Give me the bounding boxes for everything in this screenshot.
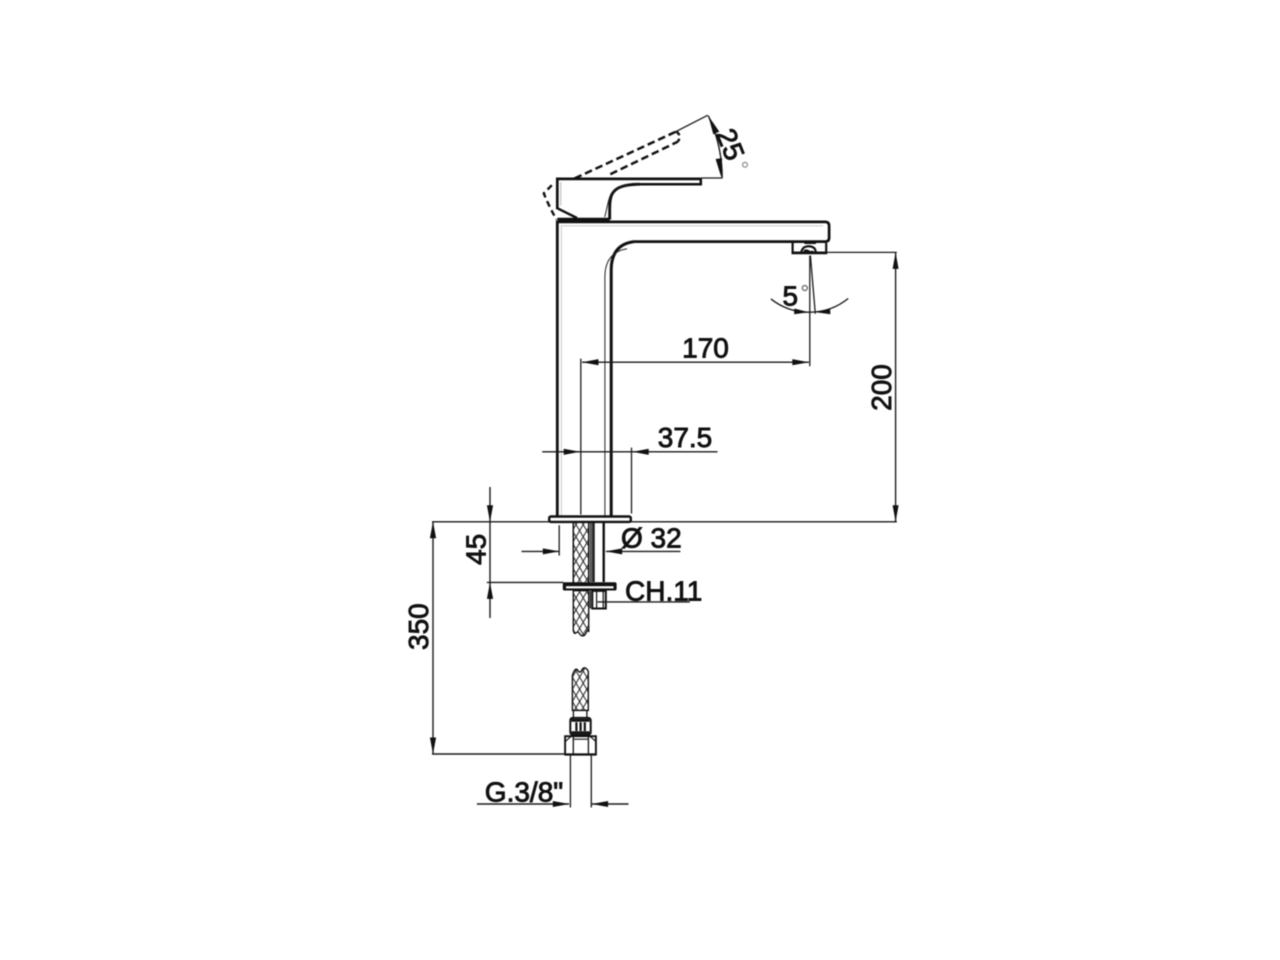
dim G.3/8	[477, 803, 569, 805]
flexible hose middle (hatched, broken)	[573, 591, 588, 636]
svg-text:Ø 32: Ø 32	[621, 523, 682, 554]
handle base bottom thick line	[558, 218, 610, 221]
handle raised dashed upper line	[575, 132, 677, 179]
svg-text:37.5: 37.5	[658, 422, 713, 453]
svg-text:200: 200	[866, 364, 897, 411]
hose ferrule neck	[573, 710, 589, 718]
mounting nut	[592, 591, 606, 609]
svg-text:5: 5	[783, 280, 799, 311]
dim 45	[489, 487, 491, 618]
crimp collar	[570, 718, 590, 735]
svg-text:350: 350	[403, 603, 434, 650]
dim 200	[827, 251, 897, 253]
flexible hose upper (hatched)	[573, 522, 588, 582]
base plate	[549, 517, 631, 522]
dim 350	[432, 522, 434, 754]
countertop reference line	[432, 521, 897, 523]
handle raised dashed lower line	[610, 142, 677, 174]
svg-text:170: 170	[682, 332, 729, 363]
body inner highlight line	[605, 249, 627, 516]
spout outlet box	[793, 243, 827, 252]
handle top edge	[556, 178, 701, 181]
handle neck highlight	[605, 185, 629, 217]
svg-text:CH.11: CH.11	[625, 576, 702, 607]
threaded stud lines	[591, 522, 593, 582]
hose nut G3/8	[565, 736, 596, 754]
handle raised dashed back arc	[544, 185, 557, 219]
dim 170	[582, 361, 809, 363]
angle dim 5 deg	[810, 256, 815, 314]
stud line beside nut	[589, 591, 591, 609]
handle base chamfer	[556, 208, 577, 218]
supply pipe	[570, 755, 591, 808]
svg-text:G.3/8": G.3/8"	[485, 777, 563, 808]
handle raised dashed tip arc	[676, 132, 679, 142]
leader CH.11	[598, 601, 690, 603]
angle dim 25 deg	[701, 177, 723, 179]
handle lever blade bottom	[640, 178, 701, 184]
faint inner highlight lines	[561, 225, 823, 227]
flexible hose lower (hatched, broken)	[572, 668, 588, 711]
horseshoe washer	[563, 582, 617, 590]
faucet body left edge	[556, 221, 559, 517]
faucet body inner curve (right edge)	[611, 242, 634, 517]
svg-text:45: 45	[460, 534, 491, 565]
handle left edge	[556, 178, 559, 209]
handle neck curve	[610, 184, 640, 219]
dim diameter 32	[522, 550, 560, 552]
faucet spout arm (top bar)	[556, 222, 829, 242]
dim 37.5	[542, 451, 717, 453]
aerator	[801, 246, 816, 253]
